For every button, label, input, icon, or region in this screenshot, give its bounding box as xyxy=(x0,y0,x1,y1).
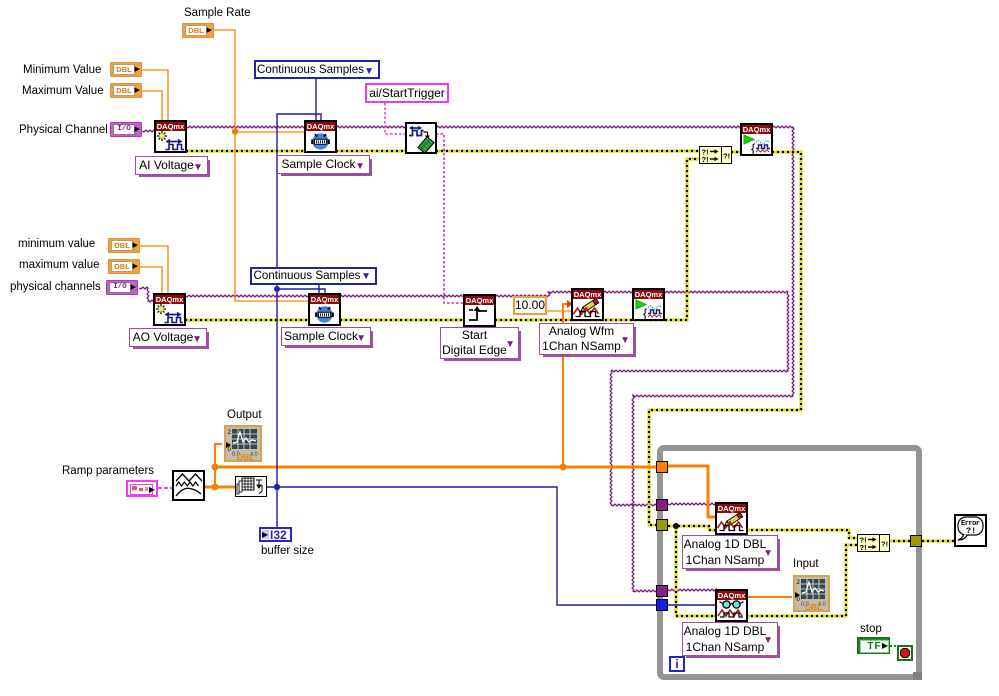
control: Maximum Value DBL xyxy=(110,83,142,98)
control: minimum value DBL row2 xyxy=(108,238,140,253)
junction: error branch dot xyxy=(673,523,679,529)
label: Sample Rate xyxy=(184,7,250,19)
control: Physical Channel I/O xyxy=(110,122,142,137)
wire: in-loop task to Read xyxy=(668,589,716,591)
control: physical channels I/O row2 xyxy=(106,280,138,295)
tunnel: waveform data (orange) xyxy=(656,461,668,473)
wire: waveform data up into Write data input xyxy=(563,304,568,467)
control: maximum value DBL row2 xyxy=(108,259,140,274)
indicator: Output waveform graph xyxy=(224,425,262,462)
ring: AI Voltage xyxy=(135,156,208,175)
wire: 10.00 timeout into Write xyxy=(547,310,572,312)
svg-text:?!: ?! xyxy=(881,540,888,549)
label: physical channels xyxy=(10,281,101,293)
node: DAQmx Start Task AI xyxy=(740,123,773,156)
ring: Analog 1D DBL 1Chan NSamp (write) xyxy=(682,535,778,569)
ring: AO Voltage xyxy=(129,328,207,347)
svg-text:{: { xyxy=(751,141,756,154)
wire: in-loop samples to Read xyxy=(668,604,716,606)
wire: ai/StartTrigger string down into terminal VI xyxy=(385,103,406,134)
svg-text:?!: ?! xyxy=(966,526,976,536)
wire: in-loop waveform tunnel to Write xyxy=(668,466,716,517)
wire: error AI row1 (yellow/black dashed) xyxy=(186,150,700,153)
tunnel: AI task (purple) xyxy=(656,585,668,597)
label: Ramp parameters xyxy=(62,465,154,477)
node: Build waveform/array node xyxy=(235,476,267,497)
ring: Start Digital Edge xyxy=(440,327,519,359)
wire: error from start AI right-down-left-down into loop xyxy=(649,152,801,525)
loop resize grip xyxy=(913,672,922,680)
svg-text:{: { xyxy=(643,306,648,319)
wire: AI task (purple) row1 through nodes, right side down-left-down into loop read tunnel xyxy=(186,126,794,592)
node: DAQmx Write (pre-loop) xyxy=(571,288,604,321)
wire: error Write out to merge2 xyxy=(746,530,858,538)
wire: AO task (purple) row2 xyxy=(185,291,633,297)
wire: ramp parameters cluster into ramp VI xyxy=(158,487,173,489)
wire: in-loop error tunnel to Write + branch down to Read xyxy=(668,526,717,616)
label: maximum value xyxy=(19,259,100,271)
label: Physical Channel xyxy=(19,124,108,136)
wire: physical channels row2 into create node xyxy=(139,287,154,302)
junction: orange dots xyxy=(212,464,219,471)
node: DAQmx Write (in loop) xyxy=(715,502,748,535)
tunnel: error out (olive) xyxy=(910,535,922,547)
junction: blue dots xyxy=(274,286,280,292)
svg-text:DBL: DBL xyxy=(805,602,822,610)
control: Ramp parameters cluster xyxy=(126,480,158,497)
indicator: Input waveform graph xyxy=(793,575,830,612)
wire: Maximum Value row1 xyxy=(142,91,162,121)
wire: waveform data to loop tunnel xyxy=(215,466,658,469)
wire: ramp data to build node xyxy=(204,486,236,489)
label: Maximum Value xyxy=(22,85,104,97)
node: Merge Errors bottom xyxy=(857,534,890,552)
arrow into write node xyxy=(567,300,573,308)
wire: stop boolean into loop condition xyxy=(890,645,898,647)
label: minimum value xyxy=(18,238,95,250)
node: Merge Errors top xyxy=(699,146,732,164)
ring: Analog 1D DBL 1Chan NSamp (read) xyxy=(682,622,778,656)
node: Ramp Pattern VI xyxy=(172,470,205,501)
wire: Continuous Samples row2 down into AO clock xyxy=(318,285,320,294)
wire: AO task continue to loop write tunnel xyxy=(610,291,789,506)
wire: sample rate branch to AI clock xyxy=(235,131,305,133)
wire: minimum value row2 xyxy=(140,246,168,294)
wire: physical channel row1 into create node xyxy=(142,130,155,132)
ring: Continuous Samples row1 xyxy=(254,60,380,79)
loop conditional terminal (stop sign) xyxy=(897,645,913,661)
constant: ai/StartTrigger xyxy=(365,83,449,103)
wire: error merge2 to right tunnel xyxy=(888,540,912,543)
wire: in-loop task to Write xyxy=(668,503,716,505)
wire: error merge1 to start xyxy=(731,151,741,154)
control: Minimum Value DBL xyxy=(110,62,142,77)
wire: Sample Rate down to both sample clocks xyxy=(214,30,309,301)
label: buffer size xyxy=(261,545,314,557)
wire: Read data out to Input graph xyxy=(746,596,792,598)
constant: 10.00 timeout xyxy=(513,296,547,315)
control: Sample Rate DBL xyxy=(182,23,214,38)
while loop border xyxy=(657,445,922,680)
ring: Continuous Samples row2 xyxy=(250,267,377,285)
node: DAQmx Create Virtual Channel AO xyxy=(153,293,186,326)
label: Input xyxy=(793,558,819,570)
label: Minimum Value xyxy=(23,64,101,76)
wire: error Read out to merge2 xyxy=(746,545,858,616)
wire: error tunnel to error handler xyxy=(922,540,955,543)
svg-text:?!: ?! xyxy=(860,543,867,551)
wire: Minimum Value row1 xyxy=(142,70,168,121)
node: Get Terminal Name VI xyxy=(405,122,437,154)
wire: build node out across to loop blue tunnel xyxy=(267,487,658,605)
svg-text:?!: ?! xyxy=(702,155,709,163)
wire: maximum value row2 xyxy=(140,267,162,294)
label: Output xyxy=(227,409,262,421)
node: DAQmx Sample Clock AI xyxy=(304,120,337,153)
node: DAQmx Create Virtual Channel AI xyxy=(154,120,187,153)
tunnel: AO task (purple) xyxy=(656,499,668,511)
loop iteration terminal i xyxy=(669,656,685,672)
wire: error AO row2 then up into merge1 xyxy=(185,159,700,320)
wire: terminal name string down to Start Digital Edge xyxy=(436,134,464,303)
ring: Analog Wfm 1Chan NSamp xyxy=(539,323,634,355)
ring: Sample Clock row1 xyxy=(277,155,370,174)
node: DAQmx Read (in loop) xyxy=(715,589,748,622)
wire: Continuous Samples row1 down into AI clock xyxy=(315,78,317,121)
svg-text:DBL: DBL xyxy=(237,452,254,460)
wire: buffer-size net up to AI clock xyxy=(277,114,321,527)
label: stop xyxy=(860,623,882,635)
tunnel: samples (blue) xyxy=(656,599,668,611)
node: Simple Error Handler xyxy=(954,514,987,547)
tunnel: error in (olive) xyxy=(656,519,668,531)
svg-text:?!: ?! xyxy=(723,152,730,161)
control: stop TF boolean xyxy=(857,637,890,654)
node: DAQmx Start Trigger (digital edge) xyxy=(463,294,496,327)
wire: buffer-size net row2 into AO clock xyxy=(277,289,325,294)
constant: buffer size I32 xyxy=(259,527,292,542)
junction: sample rate dot xyxy=(232,128,238,134)
node: DAQmx Start Task AO xyxy=(632,288,665,321)
ring: Sample Clock row2 xyxy=(281,327,371,346)
wire: ramp branch up to Output graph xyxy=(215,444,222,488)
node: DAQmx Sample Clock AO xyxy=(308,293,341,326)
